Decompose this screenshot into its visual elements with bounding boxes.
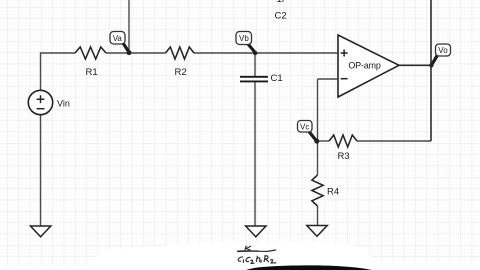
svg-text:OP-amp: OP-amp	[348, 60, 381, 70]
svg-text:R2: R2	[175, 67, 187, 78]
svg-text:Vin: Vin	[57, 98, 70, 108]
svg-text:C1: C1	[271, 73, 283, 84]
svg-text:R3: R3	[338, 151, 350, 162]
svg-text:1F: 1F	[277, 0, 288, 5]
svg-text:Va: Va	[113, 34, 123, 43]
svg-text:R1: R1	[86, 67, 98, 78]
svg-text:Vc: Vc	[300, 122, 309, 131]
svg-text:Vo: Vo	[438, 46, 448, 55]
svg-text:C2: C2	[275, 10, 287, 21]
svg-text:Vb: Vb	[239, 34, 249, 43]
svg-text:R4: R4	[327, 187, 339, 198]
